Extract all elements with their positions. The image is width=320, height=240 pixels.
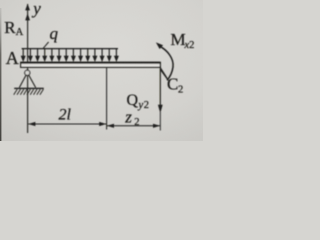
support triangle left leg [19, 75, 26, 88]
shear force Q_y2 arrow line [159, 68, 161, 107]
wire: y-axis / reaction line vertical through support [27, 4, 29, 133]
ground hatching [14, 89, 44, 95]
dimension line 2l [28, 123, 106, 125]
wire: q leader line [43, 42, 48, 48]
support ground line [14, 87, 44, 89]
beam top edge thicker [21, 62, 161, 64]
moment M_x2 arc [160, 46, 173, 80]
dimension line z2 [107, 125, 160, 127]
moment arrowhead [156, 42, 163, 49]
extension below Q arrow [159, 112, 161, 131]
beam AB (double line) [21, 62, 161, 67]
support pin circle [25, 70, 30, 75]
force R_A arrowhead [25, 13, 30, 20]
support triangle right leg [29, 75, 36, 88]
node y-axis arrowhead [25, 4, 30, 11]
distributed load q top line [22, 48, 118, 50]
section cut slant line 2 [160, 70, 168, 81]
extension line at load end [106, 68, 108, 130]
paper background [0, 0, 203, 141]
distributed load arrows [21, 49, 119, 62]
section cut slant line 1 [160, 67, 167, 78]
